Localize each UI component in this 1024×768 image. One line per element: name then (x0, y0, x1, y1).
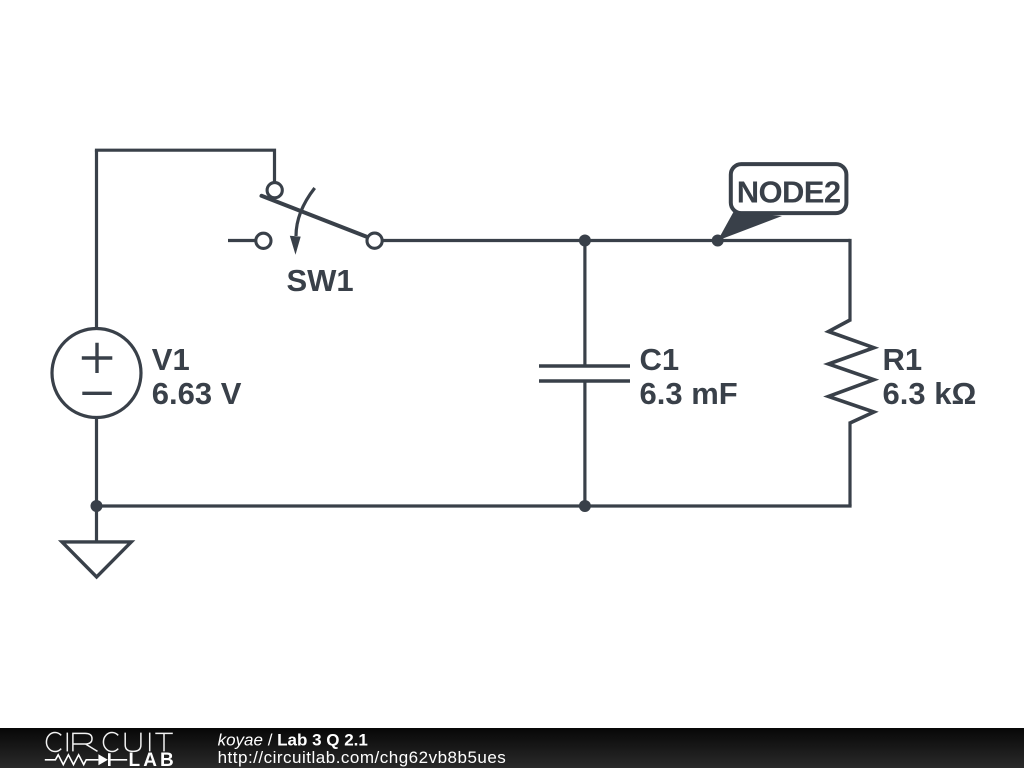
junction dot at capacitor top node (579, 235, 591, 247)
wire V1 bottom to ground (95, 417, 98, 541)
wire capacitor bottom lead (583, 381, 586, 506)
resistor R1 (829, 320, 874, 423)
svg-text:koyae / Lab 3 Q 2.1: koyae / Lab 3 Q 2.1 (218, 731, 368, 750)
wire bottom rail horizontal (97, 504, 852, 507)
svg-text:6.3 kΩ: 6.3 kΩ (883, 376, 977, 411)
svg-text:R1: R1 (883, 342, 923, 377)
voltage source V1 (52, 329, 141, 418)
svg-text:http://circuitlab.com/chg62vb8: http://circuitlab.com/chg62vb8b5ues (218, 748, 507, 767)
label V1 value (152, 342, 242, 411)
wire capacitor top lead (583, 241, 586, 367)
svg-text:V1: V1 (152, 342, 190, 377)
svg-text:SW1: SW1 (287, 263, 354, 298)
wire top rail horizontal and drop to switch terminal (95, 150, 275, 182)
ground (62, 542, 131, 577)
svg-text:C1: C1 (640, 342, 680, 377)
CircuitLab logo wordmark CIRCUIT (46, 733, 172, 752)
footer bar (0, 728, 1024, 768)
wire right vertical upper (node to resistor) (848, 239, 851, 322)
junction dot bottom-left node (91, 500, 103, 512)
svg-text:NODE2: NODE2 (737, 175, 841, 210)
label R1 value (883, 342, 977, 411)
CircuitLab logo resistor-diode doodle (45, 753, 127, 766)
capacitor C1 (539, 366, 630, 381)
junction dot NODE2 on rail (712, 235, 724, 247)
svg-text:6.63 V: 6.63 V (152, 376, 242, 411)
wire right vertical lower (resistor to bottom rail) (848, 422, 851, 507)
wire main horizontal rail from switch to right side (383, 239, 851, 242)
svg-text:LAB: LAB (129, 750, 177, 768)
svg-text:6.3 mF: 6.3 mF (640, 376, 738, 411)
node NODE2 flag callout (718, 164, 847, 240)
label C1 value (640, 342, 738, 411)
switch SW1 (228, 183, 382, 255)
wire top-left vertical from V1 to top rail (95, 150, 98, 329)
junction dot capacitor bottom node (579, 500, 591, 512)
